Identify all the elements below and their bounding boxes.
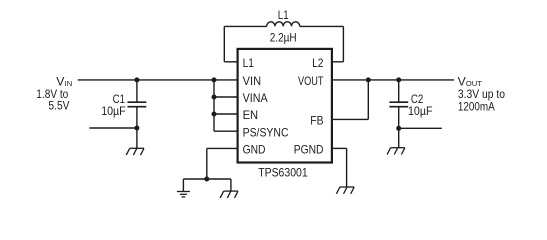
ground earth symbol [177,192,190,197]
svg-text:L1: L1 [278,8,289,22]
svg-text:10µF: 10µF [101,104,126,118]
node C1 bottom junction [134,126,139,131]
wire FB pin stub [332,118,368,120]
node C1 top junction [134,77,139,82]
wire inductor loop top left [224,25,266,27]
node FB tap junction [366,77,371,82]
ground chassis right of earth [220,191,238,198]
svg-text:GND: GND [243,143,266,157]
wire C1 top lead [136,80,138,102]
wire C1 bottom lead [136,107,138,128]
node bus-VINA junction [212,95,217,100]
wire C2 ground lead [398,128,400,147]
wire inductor loop right vertical [342,26,344,61]
svg-text:10µF: 10µF [408,104,433,118]
wire FB vertical [367,80,369,120]
wire C2 bottom lead [398,107,400,129]
node C2 bottom junction [396,126,401,131]
svg-text:L2: L2 [312,56,323,70]
wire input bus vertical [213,80,215,131]
node bus-VIN junction [212,77,217,82]
node bus-EN junction [212,112,217,117]
svg-text:PS/SYNC: PS/SYNC [243,125,289,139]
svg-text:FB: FB [310,113,323,127]
node C2 top junction [396,77,401,82]
svg-text:2.2µH: 2.2µH [270,30,297,44]
svg-text:VINA: VINA [243,91,268,105]
wire L2 pin stub [332,61,344,63]
IC U1 TPS63001 body [238,49,332,163]
svg-text:5.5V: 5.5V [48,99,69,113]
wire C1 ground lead [136,128,138,148]
wire VIN rail [78,79,238,81]
wire input return stub [89,127,136,129]
wire VINA pin stub [214,96,238,98]
ground chassis under PGND [336,187,354,194]
svg-text:EN: EN [243,108,259,122]
capacitor C1 [128,102,147,107]
wire PGND vertical drop [346,148,348,187]
svg-text:PGND: PGND [294,143,324,157]
wire GND horizontal tie [183,178,231,180]
svg-text:VIN: VIN [243,74,262,88]
svg-text:L1: L1 [243,56,254,70]
ground chassis under C2 [387,148,405,155]
wire output return stub [399,127,442,129]
wire EN pin stub [214,113,238,115]
wire PS/SYNC pin stub [214,130,238,132]
wire earth ground drop [182,179,184,192]
svg-text:VOUT: VOUT [298,74,324,88]
svg-text:TPS63001: TPS63001 [258,166,308,180]
svg-text:1200mA: 1200mA [458,99,495,113]
wire GND pin stub [207,147,238,149]
wire chassis ground drop [230,179,232,191]
wire VOUT rail [332,79,454,81]
wire C2 top lead [398,80,400,102]
inductor L1 [267,22,300,27]
capacitor C2 [389,102,408,107]
wire inductor loop left vertical [223,26,225,61]
wire PGND pin stub [332,147,347,149]
wire L1 pin stub [224,61,237,63]
wire inductor loop top right [300,25,344,27]
node GND junction [204,177,209,182]
wire GND vertical drop [206,148,208,179]
ground chassis under C1 [126,148,144,155]
